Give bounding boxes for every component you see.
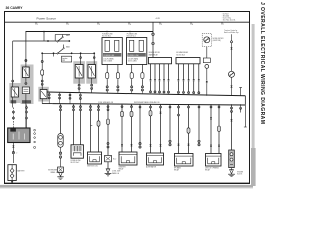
- svg-text:INSTRUMENT: INSTRUMENT: [48, 170, 58, 172]
- svg-text:FUSIBLE LINK: FUSIBLE LINK: [104, 55, 116, 57]
- svg-text:(IGNITION): (IGNITION): [213, 40, 222, 42]
- svg-text:No.2: No.2: [113, 159, 116, 161]
- svg-text:36 CAMRY: 36 CAMRY: [6, 6, 24, 10]
- svg-text:COWL SIDE: COWL SIDE: [112, 171, 120, 173]
- svg-text:ENGINE ROOM: ENGINE ROOM: [149, 52, 161, 54]
- svg-text:IGNITION COIL: IGNITION COIL: [87, 166, 98, 168]
- svg-text:BLOCK No.1: BLOCK No.1: [127, 36, 136, 38]
- svg-text:BLOCK: BLOCK: [237, 174, 242, 176]
- svg-text:: GL Red: : GL Red: [222, 13, 229, 15]
- svg-text:AM1: AM1: [66, 34, 70, 37]
- svg-text:FUSIBLE LINK: FUSIBLE LINK: [102, 34, 113, 36]
- svg-text:NOISE FILTER: NOISE FILTER: [213, 38, 225, 40]
- svg-text:BLOCK No.2: BLOCK No.2: [71, 162, 80, 164]
- svg-text:BLOCK No.1: BLOCK No.1: [102, 36, 111, 38]
- svg-text:BLOCK No.3: BLOCK No.3: [176, 55, 185, 57]
- svg-text:J OVERALL ELECTRICAL WIRING DI: J OVERALL ELECTRICAL WIRING DIAGRAM: [259, 2, 265, 124]
- svg-text:: Shielded: : Shielded: [222, 15, 229, 17]
- svg-text:CIRCUIT OPENING: CIRCUIT OPENING: [205, 168, 220, 170]
- svg-text:: See How Use GL: : See How Use GL: [222, 19, 236, 21]
- svg-text:AM2: AM2: [66, 46, 70, 49]
- svg-text:FUSIBLE LINK: FUSIBLE LINK: [71, 160, 81, 162]
- svg-text:ENGINE: ENGINE: [237, 171, 243, 173]
- svg-text:Power Source: Power Source: [37, 17, 57, 21]
- svg-text:FUSIBLE LINK: FUSIBLE LINK: [128, 55, 140, 57]
- svg-text:FUSIBLE LINK: FUSIBLE LINK: [127, 34, 138, 36]
